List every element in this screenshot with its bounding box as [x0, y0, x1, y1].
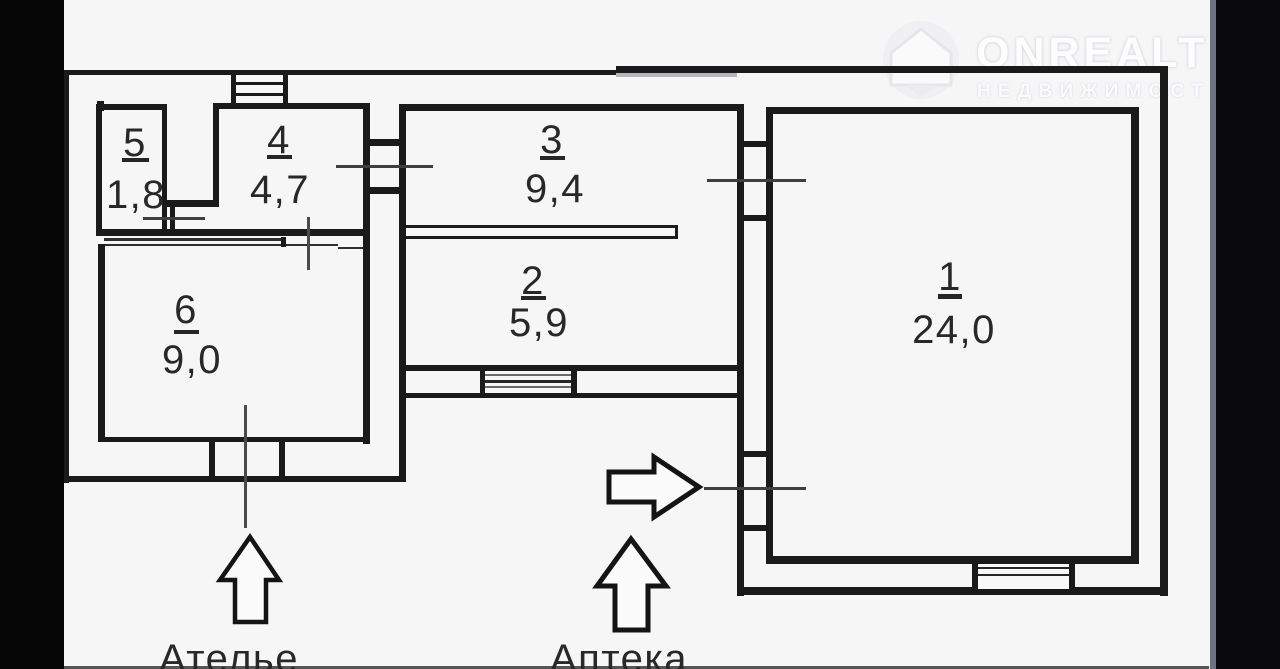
outer bottom wall left section: [63, 476, 406, 482]
room 6 bottom wall: [98, 437, 370, 442]
shaft rung upper 2: [744, 215, 766, 221]
room 3 underline: [540, 156, 565, 160]
shaft rung lower 2: [744, 525, 766, 531]
right gray edge: [1210, 0, 1216, 669]
shaft rung upper 1: [744, 141, 766, 147]
door axis line rooms 4-6: [307, 217, 310, 270]
room 2 number: [503, 261, 563, 301]
door axis line entrance: [244, 405, 247, 528]
room 6 area: [142, 340, 242, 380]
watermark house icon: [883, 21, 959, 99]
window room 2: bar 2: [485, 380, 571, 383]
door line lower: [704, 487, 806, 490]
watermark НЕДВИЖИМОСТЬ: [977, 82, 1231, 101]
step wall horizontal: [162, 200, 219, 207]
label atelier: [159, 639, 299, 669]
shaft rung 2: [370, 187, 399, 194]
partition rooms 3-2: [406, 225, 678, 239]
room 2 bottom wall: [399, 365, 740, 371]
room 5 top wall: [97, 104, 167, 110]
room 1 number: [920, 257, 980, 297]
window in top wall: bar 2: [236, 93, 283, 96]
window in top wall: bar 1: [236, 82, 283, 85]
window room 1: left jamb: [972, 564, 978, 590]
room 1 underline: [938, 294, 962, 299]
left black margin bar: [0, 0, 64, 669]
room 3 top wall: [399, 104, 744, 111]
window room 1: bar 2: [978, 574, 1069, 577]
outer top wall left segment: [63, 70, 616, 75]
up arrow apteka: [597, 539, 666, 630]
bottom shadow line: [64, 666, 1209, 669]
room 2 underline: [521, 296, 546, 300]
room 1 top wall: [766, 107, 1139, 114]
door swing line room 5: [143, 217, 205, 220]
room 5 area: [86, 175, 186, 215]
watermark logo circle: [883, 21, 959, 99]
room 6 left wall: [98, 244, 105, 442]
shaft wall B (room3/2 left): [399, 104, 406, 481]
corridor bottom wall: [399, 393, 744, 398]
step wall vertical lower: [170, 204, 175, 236]
window room 1: bar 1: [978, 567, 1069, 570]
window in top wall: right jamb: [283, 74, 288, 104]
east door arrow: [609, 457, 699, 517]
window room 2: bar 3: [485, 386, 571, 389]
room 1 right wall: [1131, 107, 1139, 564]
door line rooms 4-3: [336, 165, 433, 168]
window room 2: left jamb: [480, 370, 485, 394]
up arrow atelier: [220, 537, 279, 622]
room 3 number: [522, 120, 582, 160]
shaft rung lower 1: [744, 451, 766, 457]
door line upper: [707, 179, 806, 182]
room 1 bottom wall: [766, 556, 1139, 564]
door jamb tick: [281, 237, 286, 247]
gray underline of top wall: [616, 73, 737, 77]
room 4 number: [249, 120, 309, 160]
vestibule right jamb: [279, 442, 285, 478]
label apteka: [549, 639, 689, 669]
rooms 4 and 5 bottom wall: [96, 229, 370, 236]
room 1 left wall: [766, 107, 773, 564]
window in top wall: left jamb: [231, 74, 236, 104]
room 6 underline: [174, 330, 199, 334]
vestibule left jamb: [209, 442, 215, 478]
room 6 number: [156, 290, 216, 330]
room 1 area: [894, 310, 1014, 350]
thin line below rooms 4-5 upper: [104, 238, 281, 241]
room 4 area: [230, 170, 330, 210]
window room 2: right jamb: [571, 370, 577, 394]
room 5 underline: [122, 158, 149, 162]
room 5 corner stub: [97, 101, 104, 111]
shaft wall C (rooms 3-2 right): [737, 104, 744, 596]
room 3 area: [505, 169, 605, 209]
window room 1: white gap: [978, 564, 1069, 589]
watermark ONREALT: [976, 32, 1209, 75]
room 5 right wall: [162, 104, 167, 236]
outer bottom wall right section: [737, 587, 1168, 595]
window room 1: right jamb: [1069, 564, 1075, 590]
window room 2: bar 1: [485, 374, 571, 377]
shaft rung 1: [370, 139, 399, 146]
outer top wall right segment: [616, 66, 1168, 73]
room 4 left wall upper: [213, 104, 219, 207]
room 5 left wall: [96, 104, 102, 236]
room 5 number: [105, 123, 165, 163]
thin line below rooms 4-5 lower: [103, 244, 338, 247]
outer right wall: [1160, 66, 1168, 596]
room 4 underline: [267, 155, 292, 159]
shaft wall A (room4/6 right): [363, 103, 370, 444]
room 4 top wall: [213, 103, 370, 109]
right black margin bar: [1216, 0, 1280, 669]
outer left wall: [63, 70, 69, 483]
thin line jog right: [338, 247, 370, 250]
room 2 area: [489, 303, 589, 343]
